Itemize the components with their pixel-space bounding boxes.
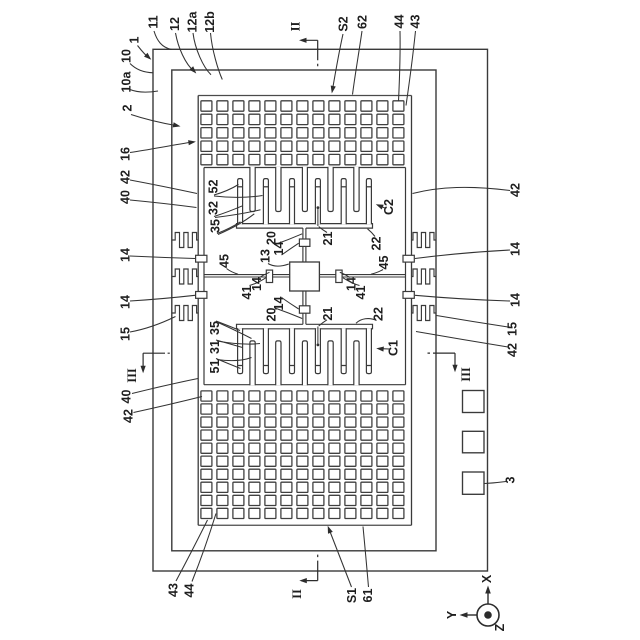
svg-text:11: 11 [146, 15, 160, 28]
svg-text:44: 44 [392, 15, 406, 29]
svg-text:12: 12 [168, 17, 182, 31]
svg-text:43: 43 [166, 583, 180, 597]
center anchor 13 [290, 262, 320, 291]
connector pad 14 (lower center) [299, 306, 310, 313]
upper fixed electrode bar 21/22 (C2) [237, 224, 373, 229]
meander spring 15 (left middle) [172, 269, 198, 284]
svg-text:C1: C1 [386, 340, 400, 356]
svg-text:14: 14 [118, 295, 132, 309]
svg-text:41: 41 [354, 286, 368, 300]
section marker II-II (top) [301, 39, 318, 41]
svg-text:14: 14 [508, 293, 522, 307]
X axis arrow [487, 592, 489, 604]
suspension beam 45 (left) [204, 274, 290, 276]
svg-text:Y: Y [445, 610, 459, 619]
perforation holes 61/44 of lower plate S1 (10 x 13 grid) [201, 391, 404, 519]
svg-text:35: 35 [208, 219, 222, 233]
svg-text:14: 14 [118, 248, 132, 262]
support pad 14 (right rail lower) [403, 292, 414, 299]
svg-text:14: 14 [508, 242, 522, 256]
svg-text:15: 15 [118, 327, 132, 341]
svg-text:42: 42 [505, 343, 519, 357]
lower movable fingers 31 (rise from plate S1) [250, 341, 255, 385]
support pad 14 (left rail lower) [196, 292, 207, 299]
wiring stem 20 (anchor to connector to lower bar) [302, 291, 304, 306]
meander spring 15 (left lower) [172, 306, 198, 321]
outer frame: substrate 10 (lid 1) outline [153, 49, 488, 571]
svg-text:1: 1 [127, 36, 141, 43]
Y axis arrow [465, 614, 477, 616]
svg-text:16: 16 [118, 147, 132, 161]
cavity top edge (bottom of plate S2) [204, 167, 406, 169]
lower fixed electrode bar 21/22 (C1) [237, 324, 373, 329]
terminal pad 3 (top) [463, 391, 485, 413]
svg-text:12a: 12a [185, 11, 199, 33]
svg-text:40: 40 [118, 190, 132, 204]
svg-text:II: II [290, 589, 304, 599]
upper movable fingers 32 (hang from plate S2) [250, 167, 255, 212]
svg-text:C2: C2 [382, 199, 396, 215]
svg-text:32: 32 [206, 201, 220, 215]
svg-text:42: 42 [508, 183, 522, 197]
svg-text:S1: S1 [345, 588, 359, 603]
svg-text:45: 45 [377, 256, 391, 270]
svg-text:Z: Z [493, 623, 507, 631]
svg-text:62: 62 [355, 15, 369, 29]
svg-text:45: 45 [217, 254, 231, 268]
svg-text:42: 42 [121, 409, 135, 423]
svg-text:3: 3 [503, 476, 517, 483]
suspension beam 45 (right) [319, 274, 405, 276]
element body 2 outline (top edge, bottom edge, side walls) [198, 95, 411, 97]
svg-text:15: 15 [505, 322, 519, 336]
wiring stem 20 (upper bar to connector to anchor) [302, 228, 304, 239]
svg-text:X: X [480, 574, 494, 583]
support pad 14 (left rail upper) [196, 255, 207, 262]
section marker III-III (left) [143, 352, 172, 354]
svg-text:31: 31 [208, 340, 222, 354]
meander spring 15 (right middle) [412, 269, 437, 284]
svg-text:II: II [288, 22, 302, 32]
cavity inner wall right [405, 168, 407, 385]
section marker III-III (right) [424, 352, 455, 354]
beam element 41 (left) [266, 270, 272, 282]
upper electrode fingers 52 with tip marks 35 (rise from bar) [238, 179, 243, 225]
svg-text:21: 21 [321, 307, 335, 321]
svg-text:21: 21 [321, 232, 335, 246]
support pad 14 (right rail upper) [403, 255, 414, 262]
svg-text:S2: S2 [336, 16, 350, 31]
svg-text:44: 44 [182, 584, 196, 598]
svg-text:14: 14 [250, 277, 264, 291]
svg-text:43: 43 [408, 15, 422, 29]
meander spring 15 (right lower) [412, 306, 437, 321]
meander spring 15 (right upper) [412, 233, 437, 248]
cavity inner wall left [203, 168, 205, 385]
svg-text:22: 22 [369, 237, 383, 251]
section marker II-II (bottom) [301, 580, 317, 582]
svg-text:51: 51 [208, 360, 222, 374]
meander spring 15 (left upper) [172, 233, 198, 248]
svg-text:10a: 10a [119, 71, 133, 93]
terminal pad 3 (middle) [463, 431, 485, 453]
svg-text:10: 10 [119, 49, 133, 63]
axis origin symbol (Z out of plane) [477, 604, 499, 626]
inner frame: frame portion 12 outline [172, 70, 436, 551]
svg-text:42: 42 [118, 170, 132, 184]
cavity bottom edge (top of plate S1) [204, 384, 406, 386]
terminal pad 3 (bottom) [463, 472, 485, 494]
perforation holes 62/44 of upper plate S2 (5 x 13 grid) [201, 101, 404, 165]
lower electrode fingers 51 with tip marks 35 (hang from bar) [238, 328, 243, 373]
svg-text:13: 13 [258, 249, 272, 263]
connector pad 14 (upper center) [299, 239, 310, 246]
svg-text:20: 20 [264, 308, 278, 322]
svg-text:12b: 12b [203, 11, 217, 33]
svg-text:III: III [125, 368, 139, 383]
svg-text:2: 2 [120, 104, 134, 111]
svg-text:61: 61 [361, 589, 375, 603]
svg-text:40: 40 [119, 390, 133, 404]
svg-text:52: 52 [206, 180, 220, 194]
svg-text:III: III [459, 367, 473, 382]
beam element 41 (right) [336, 270, 342, 282]
